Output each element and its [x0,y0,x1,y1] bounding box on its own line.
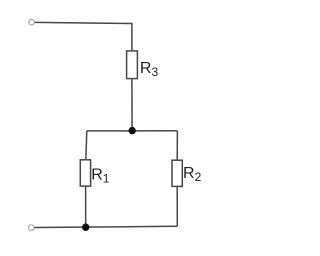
wire: bottom rail [35,226,178,227]
resistor R3 [127,51,138,79]
wire: top terminal to R3 top [35,22,132,51]
node junction (bottom, R1 to rail) [82,224,89,231]
svg-text:R2: R2 [183,165,202,184]
resistor R2 [172,160,182,186]
wire: R2 bottom to bottom rail [176,186,178,226]
wire: right branch down to R2 [176,131,178,160]
wire: R3 bottom to top junction [131,79,133,131]
node junction (top, R3/R1/R2) [129,127,136,134]
terminal (top-left input) [29,20,35,26]
svg-text:R1: R1 [91,167,110,186]
wire: left branch down to R1 [86,131,87,160]
resistor R1 [80,160,90,186]
svg-text:R3: R3 [140,60,159,79]
terminal (bottom-left input) [29,225,35,231]
wire: R1 bottom to bottom junction [85,186,87,227]
wire: top rail of parallel section [87,130,178,132]
